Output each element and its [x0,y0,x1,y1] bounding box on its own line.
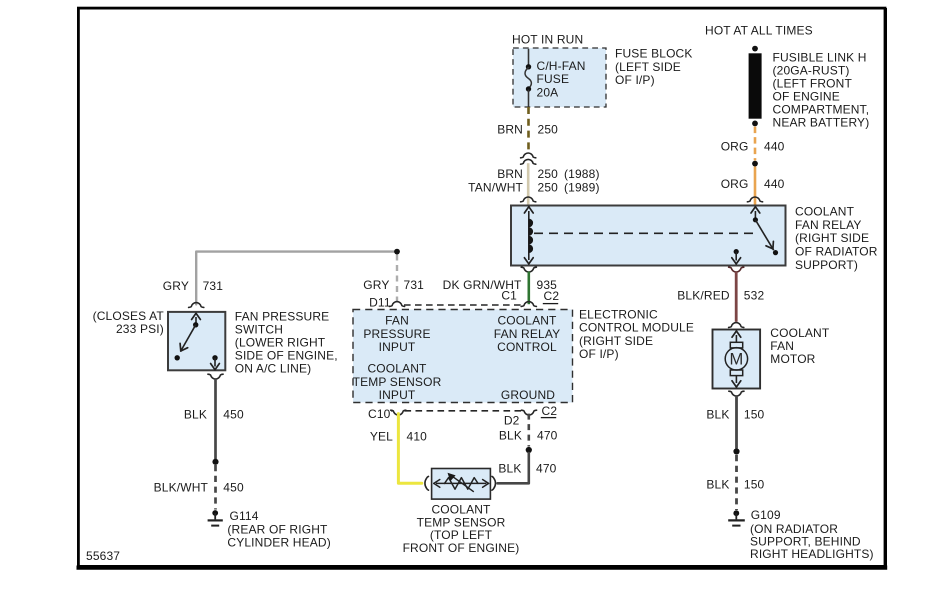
wire GRY 731 (junction down to ECM D11, dashed) [396,255,398,305]
wire TAN/WHT 250 (connector to relay) [527,163,530,204]
label COOLANT TEMP SENSOR INPUT [353,362,442,402]
svg-text:(RIGHT SIDE: (RIGHT SIDE [579,334,653,348]
svg-text:233 PSI): 233 PSI) [116,322,164,336]
svg-text:C2: C2 [544,289,560,303]
label BLK 470 (lower) [498,462,556,476]
label GRY 731 (right) [363,278,424,292]
svg-text:RIGHT HEADLIGHTS): RIGHT HEADLIGHTS) [750,547,874,561]
svg-text:SWITCH: SWITCH [235,323,283,337]
junction node (ORG) [752,161,758,167]
svg-text:250: 250 [538,167,559,181]
svg-text:410: 410 [407,430,428,444]
svg-text:470: 470 [536,462,557,476]
ECM top connector line with pin cavities D11 and C2 [389,302,536,307]
svg-text:GROUND: GROUND [501,388,555,402]
svg-text:ORG: ORG [721,177,749,191]
wire BLK 470 (ECM D2 to junction, dashed) [527,414,530,447]
svg-text:GRY: GRY [363,278,389,292]
svg-text:FAN RELAY: FAN RELAY [795,218,861,232]
wire BLK 150 (junction to ground, dashed) [735,455,738,510]
svg-text:440: 440 [764,139,785,153]
svg-text:(LEFT SIDE: (LEFT SIDE [615,60,681,74]
coolant fan relay U1 (box) [511,206,786,266]
svg-text:PRESSURE: PRESSURE [363,327,430,341]
wire YEL 410 (ECM C10 to temp sensor) [398,414,421,484]
svg-text:C2: C2 [542,404,558,418]
svg-text:COOLANT: COOLANT [497,314,557,328]
svg-text:HOT IN RUN: HOT IN RUN [512,32,583,46]
connector arc below relay (coil out) [521,267,536,272]
svg-text:(REAR OF RIGHT: (REAR OF RIGHT [227,523,328,537]
svg-text:BLK: BLK [184,408,207,422]
svg-text:SIDE OF ENGINE,: SIDE OF ENGINE, [235,349,338,363]
svg-text:470: 470 [537,428,558,442]
svg-text:150: 150 [744,408,765,422]
svg-text:ON A/C LINE): ON A/C LINE) [235,361,311,375]
label ELECTRONIC CONTROL MODULE (RIGHT SIDE OF I/P) [579,307,694,361]
label COOLANT FAN MOTOR [770,326,830,366]
label BLK/RED 532 [677,288,764,302]
svg-text:BLK: BLK [498,462,521,476]
wire BLK 450 (switch to junction) [214,378,217,459]
pressure switch contacts [175,313,220,369]
relay switch contacts [732,207,778,264]
svg-text:C/H-FAN: C/H-FAN [537,59,586,73]
svg-text:COOLANT: COOLANT [431,502,491,516]
label FAN PRESSURE INPUT [363,314,430,354]
svg-text:731: 731 [404,278,425,292]
ground G109 [728,510,745,525]
junction node (BLK 450) [212,459,218,465]
label ORG 440 (lower) [721,177,785,191]
connector arc below relay (switch out) [729,267,744,272]
label G114 (REAR OF RIGHT CYLINDER HEAD) [227,509,330,550]
svg-text:MOTOR: MOTOR [770,352,815,366]
svg-text:FUSE: FUSE [537,72,570,86]
svg-text:(CLOSES AT: (CLOSES AT [93,309,165,323]
fusible link H (black bar) [749,46,762,127]
svg-text:CONTROL: CONTROL [497,340,557,354]
svg-text:(1988): (1988) [564,167,600,181]
svg-text:D11: D11 [369,296,391,310]
connector arc at relay pin (right) [747,197,762,202]
fuse block (dashed box) [513,48,606,107]
svg-text:OF RADIATOR: OF RADIATOR [795,245,878,259]
label (CLOSES AT 233 PSI) [93,309,165,336]
label DK GRN/WHT 935 [443,278,557,292]
svg-text:OF I/P): OF I/P) [615,73,655,87]
svg-text:COOLANT: COOLANT [367,362,427,376]
svg-text:FAN RELAY: FAN RELAY [494,327,560,341]
relay coil (bumps) [529,219,533,253]
wire BLK 470 (junction to temp sensor) [498,453,529,483]
connector arc above motor [729,323,744,328]
svg-text:HOT AT ALL TIMES: HOT AT ALL TIMES [705,24,813,38]
svg-text:FUSIBLE LINK H: FUSIBLE LINK H [773,51,867,65]
label COOLANT FAN RELAY CONTROL [494,314,560,354]
label GRY 731 (left) [163,279,223,293]
connector arc at sensor right [492,476,496,490]
svg-text:BRN: BRN [497,122,523,136]
svg-text:440: 440 [764,177,785,191]
label ORG 440 (upper) [721,139,785,153]
svg-text:FAN: FAN [385,314,409,328]
svg-text:FAN PRESSURE: FAN PRESSURE [235,310,329,324]
svg-text:D2: D2 [504,414,520,428]
svg-text:BRN: BRN [497,167,523,181]
label FAN PRESSURE SWITCH (LOWER RIGHT SIDE OF ENGINE, ON A/C LINE) [235,310,338,376]
svg-text:G114: G114 [230,509,259,523]
label BLK 470 (upper) [499,428,558,442]
relay control dashed line [534,232,756,234]
svg-text:COOLANT: COOLANT [795,204,855,218]
svg-text:(RIGHT SIDE: (RIGHT SIDE [795,231,869,245]
svg-text:731: 731 [203,279,224,293]
svg-text:ORG: ORG [721,139,749,153]
svg-text:G109: G109 [751,508,781,522]
svg-text:NEAR BATTERY): NEAR BATTERY) [773,116,870,130]
connector arc at relay pin (left) [521,197,536,202]
label BLK/WHT 450 [154,481,244,495]
svg-text:(TOP LEFT: (TOP LEFT [430,528,493,542]
svg-text:C1: C1 [501,289,517,303]
wire BLK/RED 532 (relay to motor) [735,272,738,322]
svg-text:FAN: FAN [770,339,794,353]
wire BRN 250 (fuse output, dashed) [527,107,530,151]
svg-text:INPUT: INPUT [379,340,416,354]
svg-text:250: 250 [538,122,559,136]
wire ORG 440 (junction to relay) [754,167,757,205]
svg-text:SUPPORT): SUPPORT) [795,258,858,272]
label C/H-FAN FUSE 20A [537,59,586,99]
electronic control module U2 (dashed box) [353,310,573,403]
coolant temp sensor RT1 (box with variable resistor) [432,469,491,500]
label TAN/WHT 250 (1989) [468,180,599,194]
svg-text:FRONT OF ENGINE): FRONT OF ENGINE) [403,541,520,555]
svg-text:250: 250 [538,180,559,194]
svg-text:COOLANT: COOLANT [770,326,830,340]
label COOLANT FAN RELAY (RIGHT SIDE OF RADIATOR SUPPORT) [795,204,878,272]
connector arc above pressure switch [189,303,204,308]
svg-text:BLK/WHT: BLK/WHT [154,481,209,495]
label YEL 410 [370,430,427,444]
junction node (BLK 470) [526,447,532,453]
svg-text:(LOWER RIGHT: (LOWER RIGHT [235,336,326,350]
label G109 (ON RADIATOR SUPPORT, BEHIND RIGHT HEADLIGHTS) [750,508,874,561]
svg-text:C10: C10 [368,407,391,421]
svg-text:(20GA-RUST): (20GA-RUST) [773,64,850,78]
connector arc at sensor left [425,476,429,490]
svg-text:CONTROL MODULE: CONTROL MODULE [579,321,694,335]
label BLK 150 (upper) [706,408,764,422]
svg-text:OF ENGINE: OF ENGINE [773,90,840,104]
ground G114 [208,510,223,525]
svg-text:ELECTRONIC: ELECTRONIC [579,307,658,321]
ECM bottom connector line with pin cavities C10 and D2 [391,410,537,415]
svg-text:GRY: GRY [163,279,189,293]
svg-text:150: 150 [744,478,765,492]
junction node (BLK 150) [733,448,739,454]
svg-text:YEL: YEL [370,430,393,444]
svg-text:BLK: BLK [706,478,729,492]
label BRN 250 (1988) [497,167,599,181]
svg-text:450: 450 [223,408,244,422]
svg-text:(1989): (1989) [564,180,600,194]
in-line connector (BRN/TAN splice) [521,153,536,164]
label FUSE BLOCK (LEFT SIDE OF I/P) [615,47,693,87]
svg-text:TAN/WHT: TAN/WHT [468,180,523,194]
wire ORG 440 (fusible link to junction, dashed) [754,127,757,161]
label COOLANT TEMP SENSOR (TOP LEFT FRONT OF ENGINE) [403,502,520,555]
svg-text:532: 532 [744,288,765,302]
label FUSIBLE LINK H (20GA-RUST) (LEFT FRONT OF ENGINE COMPARTMENT, NEAR BATTERY) [773,51,870,130]
svg-text:BLK/RED: BLK/RED [677,288,730,302]
connector arc below motor [729,391,744,396]
junction node (GRY) [394,249,400,255]
svg-text:450: 450 [223,481,244,495]
svg-text:BLK: BLK [499,428,522,442]
svg-text:INPUT: INPUT [379,388,416,402]
label BLK 450 [184,408,244,422]
relay coil pin line with arrows [524,207,533,264]
svg-text:TEMP SENSOR: TEMP SENSOR [353,375,442,389]
svg-text:FUSE BLOCK: FUSE BLOCK [615,47,693,61]
svg-text:M: M [730,351,744,369]
label BRN 250 [497,122,558,136]
fan pressure switch S1 (box) [168,312,225,370]
wire GRY 731 (switch riser + horizontal run) [196,252,397,305]
wire BLK 150 (motor to junction) [735,395,738,448]
fuse C/H-FAN 20A [525,49,531,107]
svg-text:20A: 20A [537,85,559,99]
svg-text:CYLINDER HEAD): CYLINDER HEAD) [227,536,330,550]
wire BLK/WHT 450 (junction to ground, dashed) [214,465,217,510]
connector arc below pressure switch [208,374,223,379]
svg-text:COMPARTMENT,: COMPARTMENT, [773,103,870,117]
label BLK 150 (lower) [706,478,764,492]
wire DK GRN/WHT 935 (relay to ECM C2) [527,272,530,305]
svg-text:(LEFT FRONT: (LEFT FRONT [773,77,853,91]
svg-text:OF I/P): OF I/P) [579,347,619,361]
svg-text:55637: 55637 [86,549,120,563]
svg-text:BLK: BLK [706,408,729,422]
coolant fan motor M1 (box) [713,330,761,389]
